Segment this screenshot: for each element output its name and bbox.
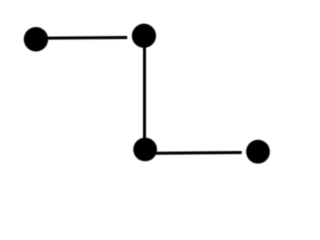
- node A: [24, 27, 48, 51]
- node D: [246, 140, 270, 164]
- wire A-B: [48, 36, 128, 40]
- wire B-C: [143, 40, 146, 143]
- wire C-D: [156, 151, 242, 155]
- node B: [132, 24, 156, 48]
- node C: [133, 138, 157, 162]
